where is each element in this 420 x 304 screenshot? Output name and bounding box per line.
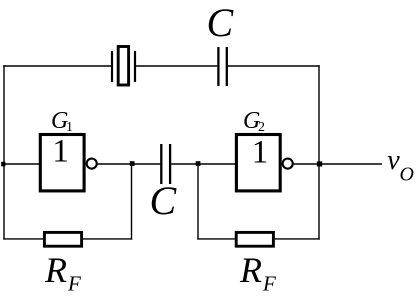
node dot: G1 output / coupling cap (130, 161, 135, 166)
inverter G2 box (236, 135, 280, 191)
resistor RF (left) (44, 232, 81, 246)
wire: coupling capacitor to node (171, 163, 198, 165)
svg-text:1: 1 (252, 135, 269, 171)
wire: G2 input (198, 163, 235, 165)
node dot: output node (317, 161, 322, 166)
wire: G2 bubble to output node (294, 163, 319, 165)
wire: node to coupling capacitor (132, 163, 161, 165)
wire: G1 bubble to node (98, 163, 132, 165)
svg-text:F: F (262, 272, 276, 296)
capacitor C (top) (218, 47, 226, 86)
svg-text:R: R (44, 250, 67, 290)
svg-text:1: 1 (66, 120, 73, 135)
svg-text:2: 2 (258, 120, 265, 135)
wire: bottom-left loop horizontal right part (83, 238, 132, 240)
svg-text:F: F (67, 272, 81, 296)
wire: left vertical rail (3, 65, 5, 239)
inverter G1 box (40, 135, 84, 191)
wire: top-left horizontal from left rail to crystal (3, 65, 111, 67)
capacitor C (coupling, middle) (161, 144, 170, 184)
inversion bubble G2 (283, 159, 293, 169)
wire: left loop vertical (node to bottom) (131, 164, 133, 240)
wire: bottom-right loop horizontal right part (275, 238, 320, 240)
svg-text:C: C (150, 178, 178, 223)
wire: bottom-right loop horizontal left part (197, 238, 235, 240)
resistor RF (right) (236, 232, 273, 246)
node dot: left rail / G1 input (1, 162, 5, 167)
wire: top capacitor to top-right corner (228, 65, 320, 67)
inversion bubble G1 (87, 159, 97, 169)
svg-text:C: C (207, 0, 235, 45)
wire: right loop vertical (node to bottom) (197, 164, 199, 240)
svg-text:R: R (239, 250, 262, 290)
crystal X1 (112, 47, 135, 86)
svg-text:O: O (400, 163, 414, 185)
svg-text:v: v (387, 145, 400, 176)
wire: crystal to top capacitor (136, 65, 217, 67)
node dot: coupling cap / G2 input (196, 161, 201, 166)
wire: G1 input (4, 163, 39, 165)
wire: output lead (319, 163, 382, 165)
svg-text:1: 1 (52, 134, 69, 170)
wire: right vertical rail (318, 65, 320, 239)
wire: bottom-left loop horizontal (3, 238, 43, 240)
